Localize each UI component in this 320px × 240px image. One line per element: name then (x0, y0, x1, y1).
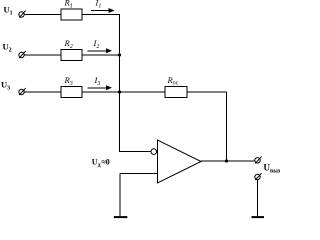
svg-text:Uд≈0: Uд≈0 (92, 157, 110, 168)
terminal output common (255, 173, 262, 180)
svg-text:R2: R2 (64, 38, 73, 50)
wire U2 to R2 (24, 54, 61, 56)
wire R3 to bus (82, 91, 120, 93)
terminal output (255, 156, 262, 163)
node Ud label (92, 157, 110, 168)
node U2 input label (3, 42, 12, 54)
svg-text:Uвых: Uвых (264, 163, 281, 175)
wire U3 to R3 (24, 91, 61, 93)
resistor R3 (61, 75, 82, 98)
ground left (114, 216, 128, 218)
resistor R1 (61, 0, 82, 20)
node U3 input label (1, 80, 10, 92)
wire op-amp output (201, 160, 255, 162)
resistor R2 (61, 38, 82, 61)
wire noninverting to ground (119, 174, 121, 217)
wire R2 to bus (82, 54, 120, 56)
svg-text:R3: R3 (64, 75, 73, 87)
node Uout label (264, 163, 281, 175)
current arrow I1 (91, 0, 115, 13)
wire feedback vertical down (226, 92, 228, 161)
wire common terminal to ground (257, 180, 259, 216)
wire summing bus vertical (119, 15, 121, 153)
wire Roc to feedback corner (187, 91, 227, 93)
node U1 input label (4, 5, 13, 17)
wire bus to Roc (120, 91, 166, 93)
junction bus row3 (118, 90, 121, 93)
svg-text:R1: R1 (64, 0, 73, 10)
svg-text:Rос: Rос (167, 75, 179, 87)
ground right (252, 216, 265, 218)
junction output feedback (225, 159, 228, 162)
current arrow I3 (88, 75, 113, 90)
junction bus row2 (118, 53, 121, 56)
svg-text:U2: U2 (3, 42, 12, 54)
svg-text:I3: I3 (94, 75, 101, 87)
op-amp U1 (151, 140, 201, 183)
terminal input 3 (19, 88, 26, 95)
terminal input 1 (19, 11, 26, 18)
wire U1 to R1 (24, 14, 61, 16)
terminal input 2 (19, 51, 26, 58)
wire R1 to bus (82, 14, 120, 16)
current arrow I2 (88, 38, 113, 53)
svg-text:U3: U3 (1, 80, 10, 92)
wire bus to inverting input (120, 151, 152, 153)
resistor Roc feedback (165, 75, 187, 98)
svg-text:I1: I1 (95, 0, 102, 10)
wire noninverting input (120, 173, 158, 175)
svg-text:I2: I2 (93, 38, 100, 50)
svg-text:U1: U1 (4, 5, 13, 17)
